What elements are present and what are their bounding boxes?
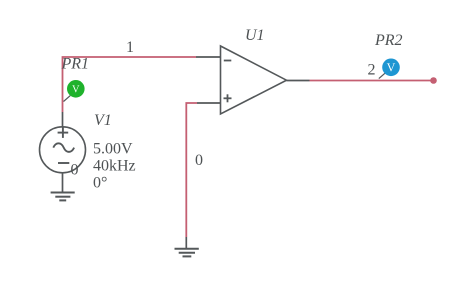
svg-text:5.00V: 5.00V xyxy=(93,141,133,158)
svg-text:0°: 0° xyxy=(93,175,107,192)
svg-text:PR1: PR1 xyxy=(61,56,90,73)
svg-text:V1: V1 xyxy=(94,112,112,129)
svg-text:U1: U1 xyxy=(245,27,265,44)
svg-text:2: 2 xyxy=(368,62,376,79)
svg-text:1: 1 xyxy=(126,39,134,56)
svg-text:0: 0 xyxy=(195,152,203,169)
svg-text:40kHz: 40kHz xyxy=(93,158,136,175)
svg-text:0: 0 xyxy=(71,162,79,179)
svg-text:PR2: PR2 xyxy=(374,32,403,49)
